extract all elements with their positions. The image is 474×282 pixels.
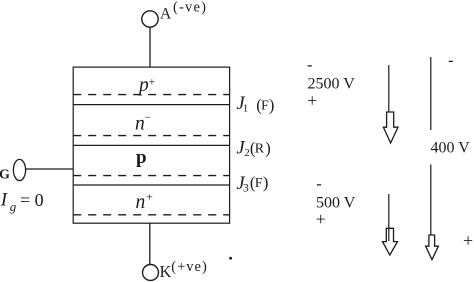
junction J2 line — [73, 144, 229, 146]
gate wire — [26, 168, 74, 170]
svg-text:): ) — [263, 173, 269, 192]
svg-text:F: F — [255, 176, 263, 191]
svg-text:n: n — [135, 114, 145, 135]
cathode terminal K circle — [143, 265, 159, 281]
arrow E3 lower line segment — [430, 165, 432, 241]
label K (+ve) — [160, 259, 208, 281]
label A (-ve) — [160, 0, 207, 22]
svg-text:G: G — [0, 168, 10, 183]
arrow E3 (400 V) upper line segment — [430, 57, 432, 130]
svg-text:R: R — [255, 142, 265, 157]
cathode wire — [149, 223, 151, 264]
svg-text:+: + — [463, 230, 473, 250]
depletion dashed line in p+ layer — [73, 94, 229, 96]
svg-text:p: p — [136, 147, 147, 168]
thyristor body box — [73, 67, 229, 223]
svg-text:(+ve): (+ve) — [171, 259, 208, 275]
svg-text:+: + — [146, 190, 153, 204]
svg-text:p: p — [137, 75, 149, 96]
wire anode to box — [149, 27, 151, 67]
junction label J3 (F) — [236, 173, 268, 195]
n- layer label — [135, 112, 151, 135]
svg-text:1: 1 — [243, 103, 249, 115]
svg-text:(-ve): (-ve) — [173, 0, 207, 15]
junction J1 line — [73, 104, 229, 106]
arrow E2 hollow head — [383, 228, 398, 255]
svg-text:-: - — [316, 174, 322, 193]
svg-text:g: g — [10, 199, 17, 214]
svg-text:): ) — [269, 96, 275, 115]
svg-text:+: + — [307, 91, 317, 111]
anode terminal A circle — [142, 11, 158, 27]
stray dot — [229, 257, 232, 260]
svg-text:= 0: = 0 — [20, 190, 44, 210]
depletion dashed line in p layer — [73, 175, 229, 177]
svg-text:F: F — [261, 99, 269, 114]
junction label J1 (F) — [236, 94, 274, 115]
svg-text:+: + — [316, 209, 326, 229]
arrow E1 across J1 (2500 V) line — [388, 65, 390, 113]
svg-text:-: - — [307, 55, 313, 74]
svg-text:+: + — [149, 75, 156, 89]
arrow E1 hollow head — [383, 112, 398, 143]
svg-text:400 V: 400 V — [431, 140, 471, 157]
junction label J2 (R) — [236, 139, 270, 160]
svg-text:-: - — [448, 50, 454, 69]
arrow E3 hollow head — [426, 235, 439, 260]
svg-text:): ) — [265, 139, 271, 158]
svg-text:−: − — [145, 112, 152, 124]
svg-text:K: K — [160, 262, 172, 281]
junction J3 line — [73, 184, 229, 186]
depletion dashed line in n- layer — [73, 135, 229, 137]
label Ig = 0 — [0, 190, 44, 214]
svg-text:n: n — [136, 192, 146, 213]
gate terminal ellipse — [13, 159, 25, 180]
p+ layer label — [137, 75, 156, 97]
arrow E2 across J3 (500 V) line — [388, 194, 390, 241]
n+ layer label — [136, 190, 154, 214]
depletion dashed line in n+ layer — [73, 214, 229, 216]
svg-text:3: 3 — [243, 183, 249, 195]
svg-text:A: A — [160, 5, 172, 22]
